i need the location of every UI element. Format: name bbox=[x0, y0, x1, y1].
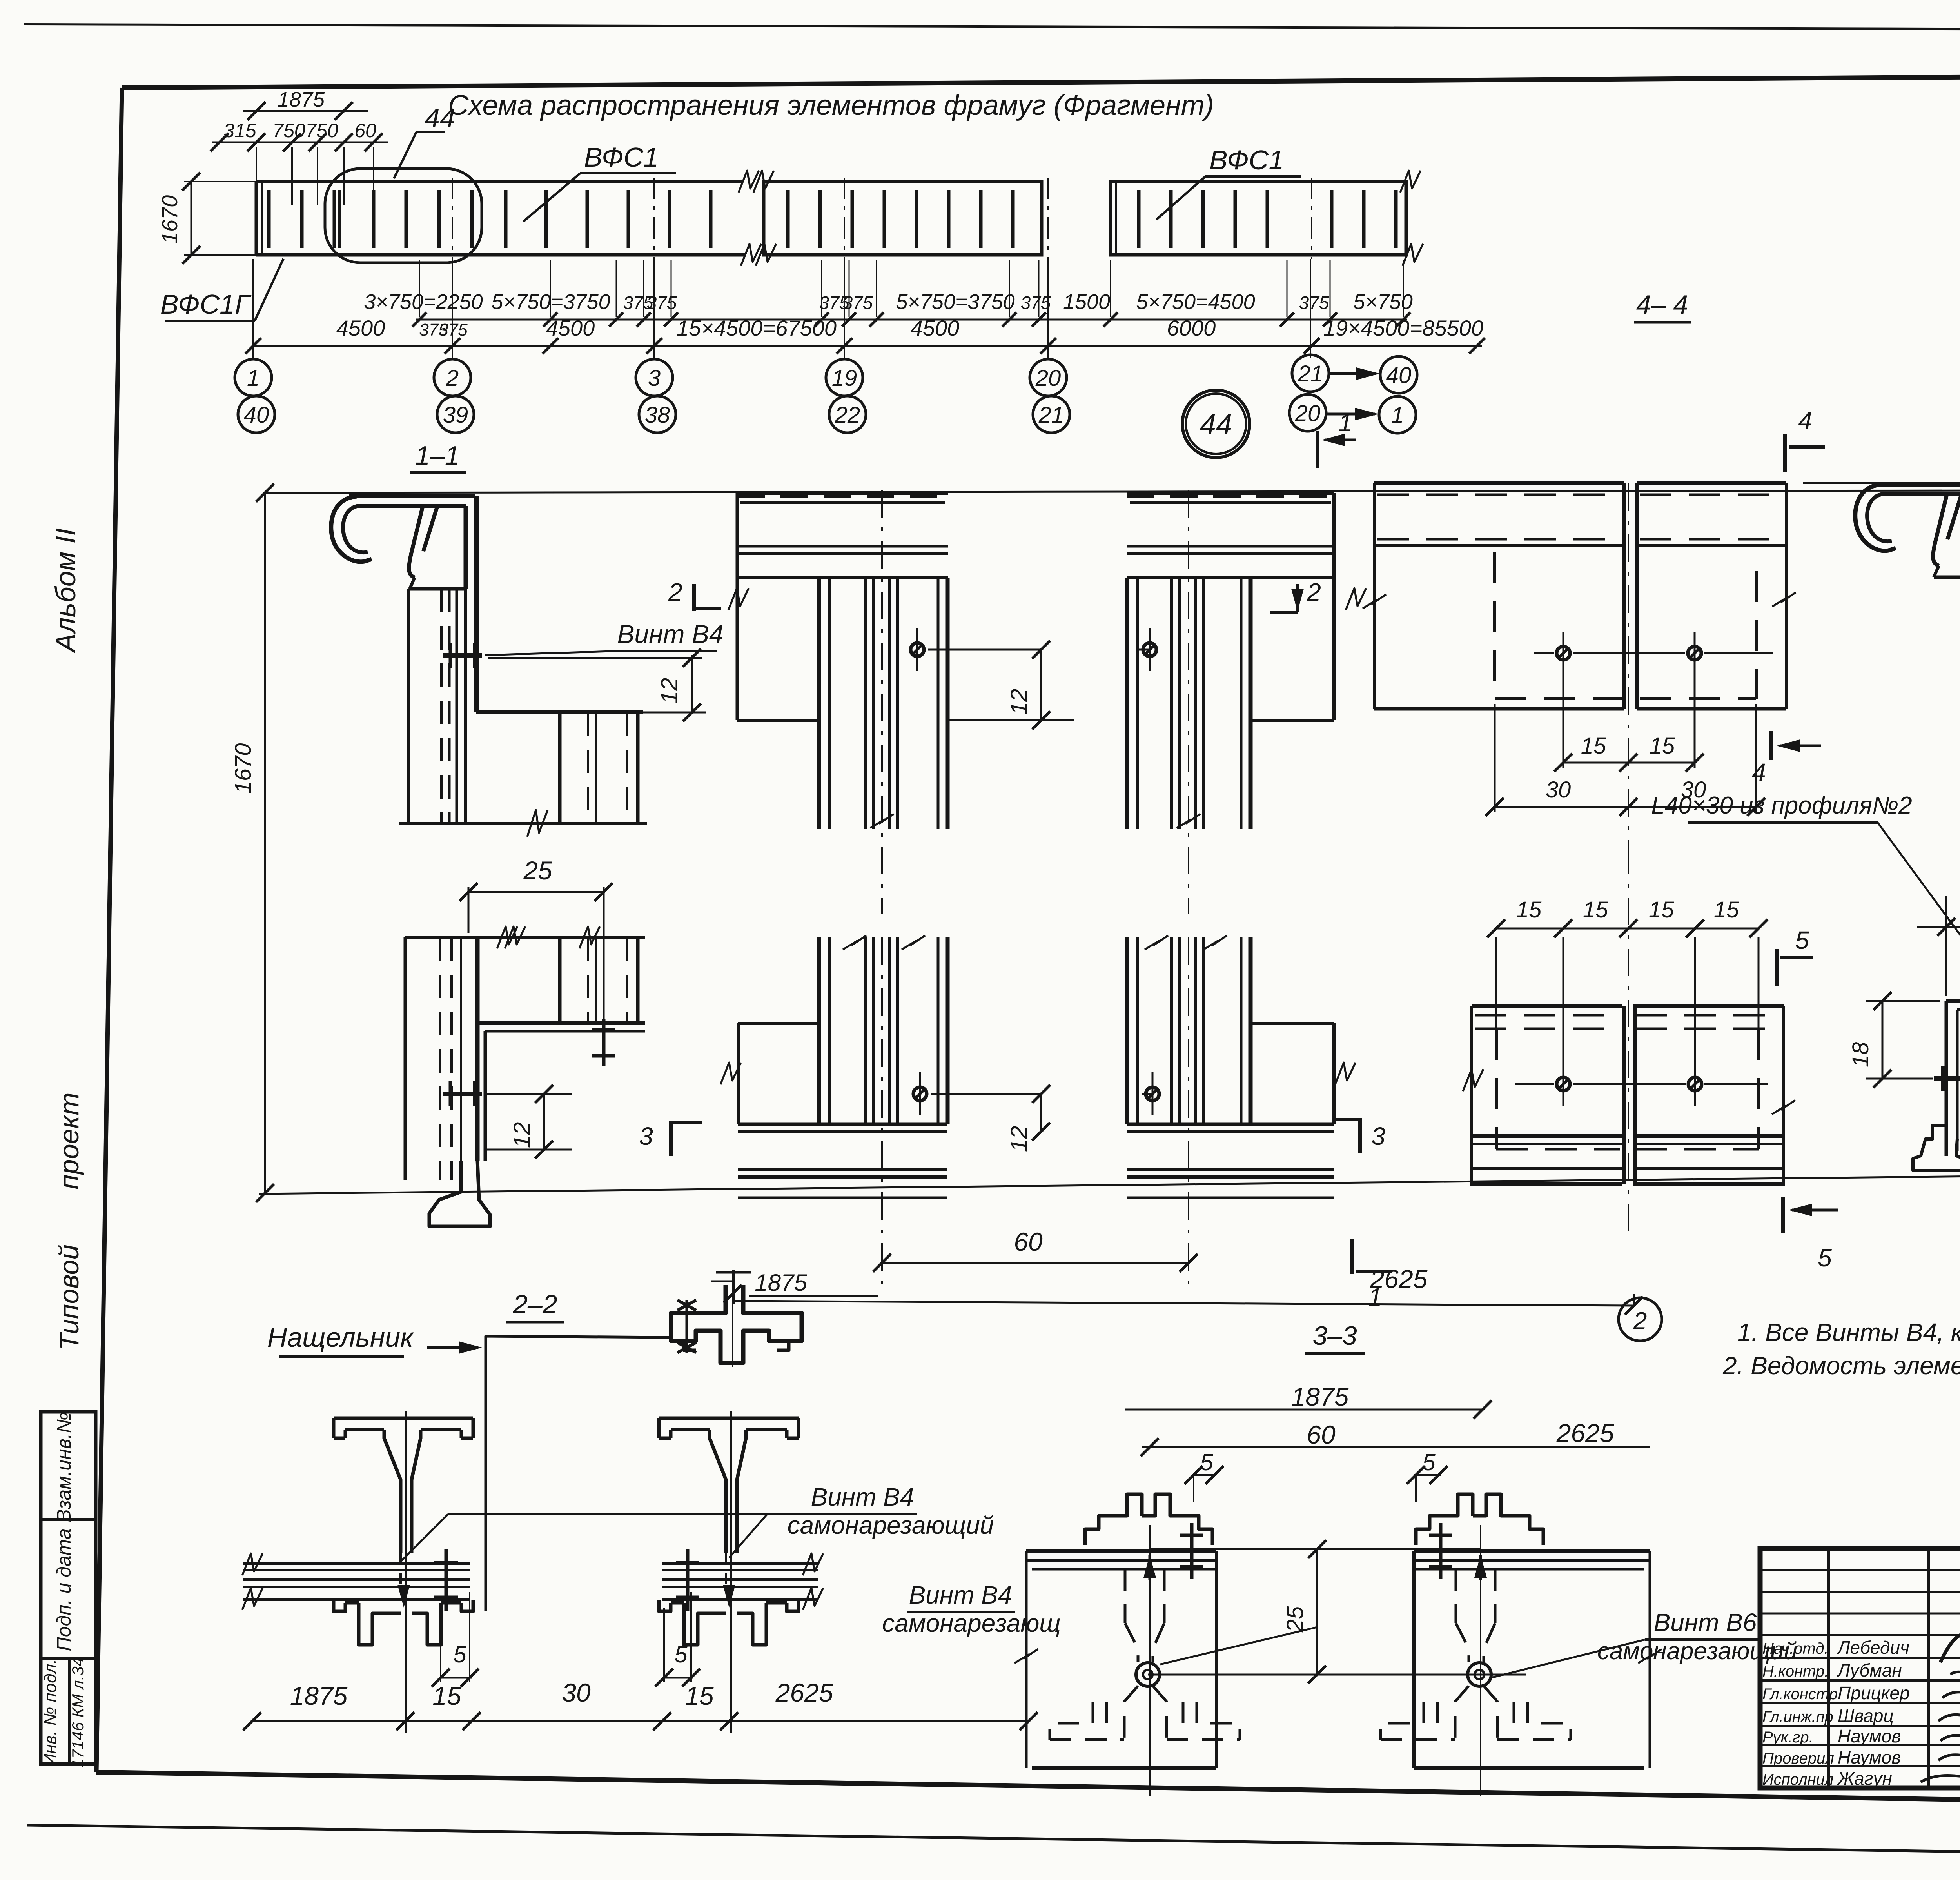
hook stem web bbox=[409, 507, 423, 578]
title block left table verticals bbox=[1827, 1549, 1830, 1788]
svg-text:5×750=3750: 5×750=3750 bbox=[491, 290, 610, 314]
svg-text:Прицкер: Прицкер bbox=[1838, 1683, 1910, 1703]
3-3 left castellated top bbox=[1085, 1494, 1142, 1545]
svg-text:5×750: 5×750 bbox=[1353, 290, 1413, 314]
5-5 detail dim 25 bbox=[1945, 896, 1947, 996]
axis circles 1/40 bbox=[235, 359, 272, 396]
bottom break line of left assembly bbox=[399, 822, 647, 825]
5-5 plan side edges with breaks bbox=[1470, 1006, 1473, 1186]
svg-text:12: 12 bbox=[1006, 689, 1032, 715]
svg-text:2625: 2625 bbox=[1556, 1419, 1614, 1448]
2-2 left assembly funnel profile bbox=[334, 1417, 473, 1420]
B1 axis dashdot bbox=[881, 937, 883, 1294]
screws in 5-5 plan bbox=[1557, 1077, 1570, 1091]
svg-text:15: 15 bbox=[432, 1681, 461, 1710]
hook head right edge and bottom bbox=[464, 506, 468, 589]
svg-text:15: 15 bbox=[1581, 733, 1606, 759]
svg-text:60: 60 bbox=[1014, 1227, 1043, 1256]
svg-text:1500: 1500 bbox=[1063, 290, 1110, 314]
left stamp boxes bbox=[41, 1412, 96, 1764]
svg-text:Альбом II: Альбом II bbox=[50, 528, 82, 654]
svg-text:30: 30 bbox=[1546, 777, 1571, 803]
svg-text:375: 375 bbox=[1299, 292, 1329, 313]
svg-text:5: 5 bbox=[453, 1641, 466, 1667]
svg-text:40: 40 bbox=[1386, 363, 1412, 388]
svg-text:ВФС1: ВФС1 bbox=[1209, 145, 1284, 175]
strip hatch ticks segment A bbox=[267, 190, 271, 248]
svg-text:19: 19 bbox=[832, 365, 857, 391]
svg-text:2: 2 bbox=[668, 578, 682, 606]
svg-text:1: 1 bbox=[1338, 409, 1352, 437]
axis circles 21-40 with arrow bbox=[1292, 355, 1329, 392]
svg-text:Типовой проект: Типовой проект bbox=[54, 1092, 84, 1350]
svg-text:40: 40 bbox=[244, 402, 269, 428]
svg-text:375: 375 bbox=[843, 292, 873, 313]
axis circles 3/38 bbox=[636, 359, 673, 396]
right edge of right beam with break bbox=[1785, 483, 1788, 709]
T2 column bbox=[1125, 578, 1129, 829]
B2 screw circled bbox=[1146, 1087, 1159, 1101]
svg-text:15: 15 bbox=[1583, 897, 1608, 923]
svg-text:5×750=3750: 5×750=3750 bbox=[896, 290, 1014, 314]
T1 screw circled bbox=[911, 643, 924, 656]
svg-text:3×750=2250: 3×750=2250 bbox=[364, 290, 483, 314]
screw arrow on lower-left small column bbox=[602, 1019, 606, 1066]
lower-left shelf corner bbox=[477, 1021, 645, 1025]
5-5 plan central joint bbox=[1622, 1006, 1626, 1184]
svg-text:15×4500=67500: 15×4500=67500 bbox=[677, 316, 837, 340]
svg-text:1875: 1875 bbox=[290, 1681, 348, 1710]
svg-text:12: 12 bbox=[1006, 1126, 1032, 1152]
svg-text:25: 25 bbox=[523, 856, 552, 885]
svg-text:Наумов: Наумов bbox=[1838, 1726, 1901, 1746]
svg-text:6000: 6000 bbox=[1167, 316, 1216, 340]
3-3 right axis and arrow bbox=[1480, 1525, 1481, 1796]
svg-text:25: 25 bbox=[1282, 1606, 1308, 1633]
svg-text:5×750=4500: 5×750=4500 bbox=[1136, 290, 1255, 314]
B2 column standing bbox=[1125, 937, 1129, 1124]
dims 15x4 over 5-5 plan bbox=[1495, 937, 1497, 1029]
T1 left edge and shelf bbox=[736, 493, 739, 720]
svg-text:Винт В4: Винт В4 bbox=[811, 1483, 914, 1511]
2-2 left axis line bbox=[405, 1411, 407, 1733]
cross profile axis and 1875 dim bbox=[732, 1275, 733, 1367]
screws in right beam boxes bbox=[1557, 647, 1570, 660]
svg-text:38: 38 bbox=[645, 402, 670, 428]
section flag 1 bottom bbox=[1350, 1239, 1354, 1274]
strip segment B band bbox=[764, 182, 1042, 255]
svg-text:1670: 1670 bbox=[157, 195, 182, 244]
svg-text:30: 30 bbox=[562, 1678, 591, 1707]
sheet frame outer top line bbox=[24, 24, 1960, 31]
3-3 left axis and arrow bbox=[1149, 1525, 1151, 1796]
svg-text:Винт В6: Винт В6 bbox=[1654, 1608, 1757, 1637]
svg-text:3: 3 bbox=[648, 365, 661, 391]
3-3 right dashed hat inside bbox=[1455, 1569, 1457, 1623]
svg-text:Наумов: Наумов bbox=[1838, 1747, 1901, 1767]
2-2 right screw arrow bbox=[725, 1553, 727, 1584]
break right of flag2 bbox=[728, 588, 749, 610]
svg-text:4500: 4500 bbox=[911, 316, 960, 340]
svg-text:1: 1 bbox=[247, 365, 260, 391]
section flag 5 top bbox=[1775, 949, 1779, 986]
svg-text:375: 375 bbox=[1021, 292, 1051, 313]
T2 axis dashdot bbox=[1188, 490, 1189, 914]
dim 12 left bbox=[488, 657, 702, 659]
screw on left post bbox=[443, 653, 482, 658]
svg-text:375: 375 bbox=[439, 320, 468, 340]
lower-left assembly top break line bbox=[405, 936, 645, 939]
svg-text:Шварц: Шварц bbox=[1838, 1706, 1894, 1726]
dim 12 between B1 B2 bbox=[931, 1093, 1041, 1095]
svg-text:Нач.отд.: Нач.отд. bbox=[1762, 1640, 1829, 1657]
drawing frame inner left line bbox=[96, 88, 122, 1772]
svg-text:3: 3 bbox=[639, 1122, 653, 1150]
4-4 top bar bbox=[1873, 483, 1960, 487]
svg-text:Взам.инв.№: Взам.инв.№ bbox=[53, 1412, 75, 1522]
svg-text:Гл.инж.пр: Гл.инж.пр bbox=[1762, 1708, 1833, 1726]
3-3 bottom axis dim with circle 2 bbox=[733, 1301, 1634, 1306]
svg-text:Рук.гр.: Рук.гр. bbox=[1762, 1729, 1813, 1746]
dim 1670 left of 1-1 bbox=[264, 493, 266, 1193]
2-2 left assembly bottom profile bbox=[334, 1600, 345, 1611]
svg-text:Исполнил: Исполнил bbox=[1762, 1771, 1833, 1788]
axis circle 2 bottom bbox=[1619, 1298, 1662, 1341]
svg-text:2: 2 bbox=[446, 365, 459, 391]
3-3 right assembly box bbox=[1414, 1549, 1650, 1553]
B1 shelf left bbox=[738, 1022, 819, 1025]
axis circles 20-1 with arrow bbox=[1289, 394, 1326, 431]
2-2 right bolt bbox=[686, 1549, 690, 1611]
2-2 right assembly bottom profile bbox=[659, 1600, 671, 1611]
4-4 hook profile curl bbox=[1855, 485, 1896, 551]
svg-text:60: 60 bbox=[1307, 1420, 1336, 1449]
drawing frame inner top line bbox=[122, 74, 1960, 88]
3-3 dim 25 vertical bbox=[1316, 1549, 1318, 1675]
svg-text:2: 2 bbox=[1307, 578, 1321, 606]
rounded highlight region node 44 bbox=[325, 169, 482, 263]
lower dimension line of strip bbox=[253, 345, 1482, 347]
svg-text:15: 15 bbox=[1649, 897, 1674, 923]
svg-text:Винт В4: Винт В4 bbox=[617, 619, 723, 648]
svg-text:3: 3 bbox=[1371, 1122, 1385, 1150]
5-5 L profile bbox=[1946, 999, 1960, 1003]
signatures scribbles bbox=[1940, 1619, 1960, 1662]
4-4 top extension line bbox=[1803, 482, 1960, 484]
hanging beam segment T2 bbox=[1127, 491, 1334, 495]
strip hatch ticks segment C bbox=[1137, 190, 1141, 248]
svg-text:315: 315 bbox=[223, 120, 256, 142]
svg-text:21: 21 bbox=[1038, 402, 1064, 428]
dim 12 between T1 T2 bbox=[928, 649, 1041, 651]
svg-text:ВФС1Г: ВФС1Г bbox=[160, 289, 252, 320]
B2 axis dashdot bbox=[1188, 937, 1189, 1294]
plan strip segment VFS1G band bbox=[256, 180, 743, 183]
axis circles 2/39 bbox=[434, 359, 471, 396]
svg-text:ВФС1: ВФС1 bbox=[584, 142, 659, 173]
vertical joint lines right beam bbox=[1622, 483, 1626, 709]
svg-text:Подп. и дата: Подп. и дата bbox=[53, 1528, 75, 1651]
2-2 left screw arrow bbox=[399, 1553, 402, 1584]
svg-text:1875: 1875 bbox=[278, 88, 325, 111]
left post of hook profile bbox=[407, 589, 410, 823]
2-2 right assembly plates bbox=[662, 1562, 818, 1565]
3-3 left circle screw bbox=[1136, 1663, 1160, 1686]
svg-text:4500: 4500 bbox=[546, 316, 595, 340]
svg-text:Н.контр.: Н.контр. bbox=[1762, 1663, 1829, 1680]
section 1-1 top extension line bbox=[265, 490, 1960, 493]
svg-text:22: 22 bbox=[835, 402, 860, 428]
T2 right edge and shelf bbox=[1332, 493, 1336, 720]
3-3 left dashed hat inside bbox=[1124, 1569, 1127, 1623]
lower-left foot shoe bbox=[429, 1161, 490, 1226]
axis circles 20/21 bbox=[1030, 359, 1067, 396]
svg-text:4500: 4500 bbox=[336, 316, 385, 340]
3-3 right castellated top bbox=[1416, 1494, 1473, 1545]
svg-text:39: 39 bbox=[443, 402, 468, 428]
bottom extension line of 1-1 bbox=[259, 1173, 1960, 1194]
svg-text:Проверил: Проверил bbox=[1762, 1750, 1834, 1767]
svg-text:20: 20 bbox=[1035, 365, 1061, 391]
svg-text:Лубман: Лубман bbox=[1837, 1660, 1902, 1680]
dim 60 bottom of 1-1 bbox=[882, 1262, 1189, 1264]
axis dashdot lines through strip bbox=[452, 178, 453, 259]
svg-text:2–2: 2–2 bbox=[512, 1290, 557, 1319]
strip break right of segment A bbox=[739, 171, 759, 193]
hook corner rail and shelf bbox=[474, 496, 479, 712]
svg-text:Нащельник: Нащельник bbox=[267, 1322, 414, 1353]
svg-text:750: 750 bbox=[272, 120, 305, 142]
svg-text:Гл.констр: Гл.констр bbox=[1762, 1686, 1838, 1703]
svg-text:Жагун: Жагун bbox=[1837, 1768, 1892, 1789]
svg-text:1: 1 bbox=[1391, 403, 1404, 428]
3-3 right bolt bbox=[1439, 1523, 1443, 1579]
svg-text:2: 2 bbox=[1633, 1308, 1647, 1335]
title block left table horizontals bbox=[1760, 1569, 1960, 1571]
svg-text:15: 15 bbox=[1714, 897, 1739, 923]
svg-text:12: 12 bbox=[509, 1122, 535, 1148]
svg-text:5: 5 bbox=[674, 1641, 688, 1667]
svg-text:4: 4 bbox=[1752, 758, 1766, 787]
4-4 stem web bbox=[1933, 495, 1947, 566]
5-5 plan right box dashed bbox=[1757, 1029, 1760, 1149]
svg-text:20: 20 bbox=[1295, 401, 1321, 426]
upper dimension line of strip bbox=[416, 319, 1407, 321]
right beam left wall bbox=[1373, 483, 1376, 709]
section flag 3 right (T3) bbox=[1358, 1118, 1362, 1153]
svg-text:2625: 2625 bbox=[775, 1678, 833, 1707]
2-2 left bolt bbox=[445, 1549, 448, 1611]
svg-text:2. Ведомость элементов приве: 2. Ведомость элементов приведена на лист… bbox=[1722, 1351, 1960, 1380]
svg-text:1670: 1670 bbox=[230, 743, 256, 794]
small column under shelf left bbox=[558, 712, 562, 823]
strip segment C band bbox=[1111, 182, 1406, 255]
section flag 4 top bbox=[1783, 434, 1787, 472]
T1 axis dashdot bbox=[881, 490, 883, 914]
hanging beam segment T1 bbox=[737, 491, 948, 495]
svg-text:15: 15 bbox=[1516, 897, 1542, 923]
section flag 5 bottom bbox=[1781, 1197, 1785, 1233]
sheet frame outer bottom line bbox=[27, 1825, 1960, 1860]
3-3 left assembly box bbox=[1026, 1549, 1216, 1553]
hook profile of VFS1G left bbox=[331, 496, 372, 562]
svg-text:Схема распространения элемен: Схема распространения элементов фрамуг (… bbox=[448, 90, 1214, 121]
node circle 44 double bbox=[1182, 390, 1250, 458]
svg-text:21: 21 bbox=[1298, 361, 1323, 387]
strip hatch ticks segment B bbox=[786, 190, 790, 248]
drawing frame inner bottom line bbox=[96, 1772, 1960, 1808]
axis circles 19/22 bbox=[826, 359, 863, 396]
svg-text:44: 44 bbox=[1200, 408, 1232, 441]
T2 screw circled bbox=[1143, 643, 1156, 656]
cross profile x-screws bbox=[686, 1300, 688, 1353]
svg-text:5: 5 bbox=[1818, 1244, 1832, 1272]
5-5 plan top edge bbox=[1472, 1004, 1622, 1008]
svg-text:19×4500=85500: 19×4500=85500 bbox=[1323, 316, 1483, 340]
extension lines from strip to dim row bbox=[256, 147, 257, 205]
3-3 left bolt bbox=[1190, 1523, 1194, 1579]
bottom lines of right part bbox=[1374, 707, 1624, 711]
svg-text:12: 12 bbox=[656, 678, 682, 704]
lower-left post bbox=[404, 937, 407, 1180]
svg-text:1. Все Винты В4, кроме огов: 1. Все Винты В4, кроме оговоренных. bbox=[1737, 1318, 1960, 1346]
cross profile top right of 2-2 bbox=[671, 1285, 802, 1363]
screw lower-left with dim 12 bbox=[443, 1092, 482, 1096]
2-2 bottom dimension row bbox=[252, 1720, 1029, 1722]
5-5 plan rails bbox=[1472, 1134, 1622, 1138]
T1 column bbox=[817, 578, 821, 829]
svg-text:15: 15 bbox=[1650, 733, 1675, 759]
svg-text:5: 5 bbox=[1422, 1449, 1436, 1475]
B1 bottom rails bbox=[738, 1123, 947, 1126]
svg-text:17146 КМ л.34: 17146 КМ л.34 bbox=[69, 1657, 87, 1768]
svg-text:Лебедич: Лебедич bbox=[1837, 1637, 1909, 1658]
corner polyline to cross profile bbox=[486, 1336, 671, 1611]
dashed box right under right beam bbox=[1755, 571, 1758, 699]
svg-text:4– 4: 4– 4 bbox=[1636, 290, 1688, 320]
right beam of 1-1 with dashed boxes bbox=[1374, 481, 1624, 485]
dims 15 15 under right beam bbox=[1563, 663, 1564, 768]
5-5 foot bbox=[1913, 1125, 1960, 1170]
5-5 plan left box dashed bbox=[1495, 1029, 1498, 1149]
svg-text:2625: 2625 bbox=[1370, 1264, 1428, 1293]
lower-left small column above shelf bbox=[558, 937, 562, 1023]
svg-text:60: 60 bbox=[354, 120, 376, 142]
svg-text:Инв. № подл.: Инв. № подл. bbox=[41, 1659, 60, 1766]
svg-text:1875: 1875 bbox=[1291, 1382, 1349, 1411]
svg-text:1–1: 1–1 bbox=[415, 441, 459, 470]
B2 shelf right bbox=[1250, 1022, 1334, 1025]
svg-text:L40×30 из профиля№2: L40×30 из профиля№2 bbox=[1651, 792, 1912, 819]
2-2 right axis line bbox=[730, 1411, 732, 1733]
axis extension lines down to circles bbox=[252, 259, 254, 358]
2-2 left assembly plates bbox=[243, 1562, 470, 1565]
svg-text:5: 5 bbox=[1200, 1449, 1213, 1475]
dim 25 lower-left bbox=[468, 887, 470, 933]
svg-text:5: 5 bbox=[1795, 926, 1809, 954]
dims 30 30 under right beam bbox=[1494, 704, 1496, 812]
5-5 dim 18 bbox=[1866, 1000, 1940, 1002]
svg-text:15: 15 bbox=[685, 1681, 714, 1710]
dashed box left under right beam bbox=[1493, 552, 1496, 699]
svg-text:44: 44 bbox=[425, 103, 455, 133]
vertical dim 1670 left of strip bbox=[191, 182, 192, 255]
hook top bar bbox=[349, 494, 475, 498]
B1 column standing bbox=[817, 937, 821, 1124]
section flag 4 bottom bbox=[1769, 731, 1773, 760]
svg-text:375: 375 bbox=[647, 292, 677, 313]
B1 screw circled bbox=[913, 1087, 927, 1101]
B2 bottom rails bbox=[1127, 1123, 1334, 1126]
3-3 right circle screw bbox=[1468, 1663, 1491, 1686]
svg-text:Винт В4: Винт В4 bbox=[909, 1581, 1012, 1609]
svg-text:4: 4 bbox=[1798, 407, 1812, 435]
svg-text:3–3: 3–3 bbox=[1312, 1321, 1357, 1351]
main title block outer box bbox=[1760, 1549, 1960, 1788]
section flag 1 top bbox=[1316, 431, 1319, 468]
section flag small at 1875 bbox=[732, 1270, 735, 1304]
svg-text:1875: 1875 bbox=[755, 1270, 807, 1296]
2-2 right assembly funnel profile bbox=[659, 1417, 799, 1420]
svg-text:18: 18 bbox=[1848, 1042, 1873, 1068]
